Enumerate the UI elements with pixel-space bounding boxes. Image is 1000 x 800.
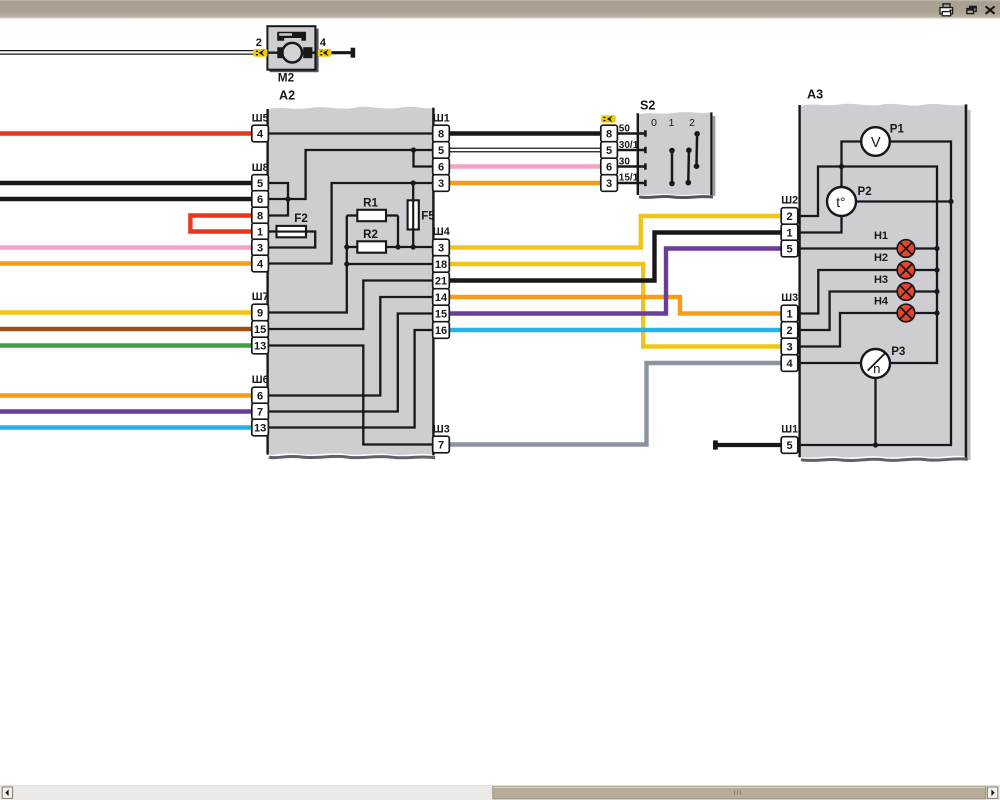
svg-text:A3: A3 — [807, 87, 823, 101]
node lamp H1 common — [934, 246, 939, 251]
svg-text:Ш2: Ш2 — [781, 195, 798, 207]
tachometer P3 — [861, 349, 890, 378]
wire Sh7.13 to Sh3.7 — [268, 346, 434, 445]
svg-text:R2: R2 — [363, 228, 378, 241]
svg-text:Ш4: Ш4 — [433, 226, 450, 238]
wire red loop Sh8.8 to Sh8.1 — [190, 216, 251, 232]
resistor R1 — [347, 214, 358, 216]
wire yellow Sh4.3 to A3 Sh2.2 — [449, 216, 781, 248]
wire Sh2.2 common net to lamps — [800, 167, 937, 364]
title bar — [0, 0, 1000, 18]
wire black Sh1.8 to S2.8 — [449, 131, 601, 135]
svg-text:5: 5 — [257, 178, 263, 190]
svg-text:2: 2 — [786, 325, 792, 337]
S2 contact line — [617, 165, 645, 167]
wire Sh1.3 to Sh8.4 — [268, 183, 434, 264]
svg-text:9: 9 — [257, 308, 263, 320]
wire Sh4.14 to Sh6.6 — [268, 297, 434, 396]
S2 contact line — [617, 132, 645, 134]
node R2 left — [344, 244, 349, 249]
svg-text:Ш1: Ш1 — [781, 424, 798, 436]
svg-text:4: 4 — [786, 358, 793, 370]
connector at M2 pin 4 — [318, 49, 332, 57]
svg-text:R1: R1 — [363, 197, 378, 210]
svg-text:6: 6 — [606, 162, 612, 174]
svg-text:Ш5: Ш5 — [252, 113, 269, 125]
svg-text:H2: H2 — [874, 252, 888, 264]
S2 contact bridge pos1 — [671, 151, 674, 184]
svg-text:14: 14 — [435, 292, 448, 304]
wire M2 pin4 to body terminal — [332, 51, 352, 54]
wire black to Sh8.6 — [0, 197, 252, 201]
voltmeter P1 — [861, 127, 890, 156]
resistor R2 — [347, 246, 358, 248]
node lamp H4 common — [934, 310, 939, 315]
svg-text:Ш6: Ш6 — [252, 374, 269, 386]
svg-text:Ш7: Ш7 — [252, 291, 269, 303]
wire orange to Sh8.4 — [0, 261, 252, 265]
wire Sh4.15 to Sh6.7 — [268, 314, 434, 412]
lamp H4 — [897, 304, 915, 322]
svg-text:t°: t° — [836, 195, 845, 210]
instrument cluster A3 block — [968, 110, 971, 460]
wire orange to Sh6.6 — [0, 393, 252, 397]
svg-text:A2: A2 — [279, 88, 295, 102]
svg-text:M2: M2 — [278, 70, 295, 84]
svg-text:1: 1 — [786, 309, 792, 321]
node R1 right — [395, 244, 400, 249]
wire red to Sh5.4 — [0, 131, 252, 135]
S2 contact bridge pos2 low — [687, 150, 690, 182]
svg-text:6: 6 — [438, 162, 444, 174]
wire orange Sh1.3 to S2.3 — [449, 181, 601, 185]
svg-text:7: 7 — [257, 407, 263, 419]
wire yellow Sh4.18 to A3 Sh3.3 — [449, 264, 781, 347]
svg-text:H4: H4 — [874, 296, 889, 308]
wire Sh4.16 to Sh6.13 — [268, 330, 434, 428]
svg-text:8: 8 — [257, 211, 263, 223]
svg-text:3: 3 — [786, 342, 792, 354]
wire Sh5.4 to Sh1.8 — [268, 132, 434, 134]
scrollbar thumb — [493, 787, 986, 799]
wire P3 bottom — [874, 378, 876, 445]
wire black Sh4.21 to A3 Sh2.1 — [449, 233, 781, 281]
node P3 bottom — [873, 442, 878, 447]
wire P1 right lead down to Sh1.5 — [800, 142, 951, 446]
svg-text:13: 13 — [254, 341, 266, 353]
wire black A3 Sh1.5 to body — [718, 443, 782, 447]
wire pink to Sh8.3 — [0, 245, 252, 249]
restore window icon — [967, 6, 976, 13]
svg-text:4: 4 — [257, 259, 264, 271]
node Sh1.5/6 junction — [411, 147, 416, 152]
svg-text:n: n — [873, 361, 880, 376]
svg-text:V: V — [871, 135, 881, 151]
svg-text:3: 3 — [438, 243, 444, 255]
connector above S2 pin 8 — [601, 115, 616, 122]
wire to lamp H4 — [800, 313, 898, 347]
wire pink Sh1.6 to S2.6 — [449, 164, 601, 168]
node lamp H2 common — [934, 267, 939, 272]
wire brown to Sh7.15 — [0, 327, 252, 331]
wire to lamp H1 — [800, 247, 898, 249]
wire purple Sh4.15 to A3 Sh2.5 — [449, 249, 781, 314]
wire R1/R2 left vertical to Sh7.9 — [268, 216, 347, 313]
node common/P1 — [839, 164, 844, 169]
svg-text:30/1: 30/1 — [619, 140, 639, 151]
svg-text:2: 2 — [689, 118, 695, 129]
svg-text:7: 7 — [438, 440, 444, 452]
wire to lamp H3 — [800, 292, 898, 331]
svg-text:15: 15 — [435, 309, 447, 321]
svg-text:1: 1 — [786, 228, 792, 240]
svg-text:5: 5 — [438, 145, 444, 157]
svg-text:Ш3: Ш3 — [433, 423, 450, 435]
wire P1 left lead — [842, 142, 862, 188]
wire cyan Sh4.16 to A3 Sh3.2 — [449, 328, 781, 332]
wire orange Sh4.14 to A3 Sh3.1 — [449, 297, 781, 314]
S2 contact line — [617, 182, 645, 184]
horizontal scrollbar track — [0, 786, 1000, 800]
scrollbar right arrow button — [987, 787, 997, 798]
node F5 bottom — [411, 244, 416, 249]
wire double-line Sh1.5 to S2.5 — [449, 148, 601, 153]
svg-text:5: 5 — [786, 440, 792, 452]
body terminal bar at A3 — [713, 440, 718, 449]
printer icon — [940, 4, 953, 16]
wire to lamp H2 — [800, 270, 898, 314]
svg-text:3: 3 — [606, 178, 612, 190]
svg-text:S2: S2 — [640, 98, 655, 112]
connector at M2 pin 2 — [253, 49, 267, 57]
node lamp H3 common — [934, 289, 939, 294]
node F5 top — [411, 180, 416, 185]
wire double-line to M2 pin 2 — [0, 50, 254, 55]
S2 contact line — [617, 149, 645, 151]
svg-text:18: 18 — [435, 259, 447, 271]
close icon — [986, 6, 995, 13]
svg-text:Ш3: Ш3 — [781, 292, 798, 304]
svg-text:2: 2 — [786, 211, 792, 223]
svg-text:F2: F2 — [294, 212, 308, 225]
wire yellow to Sh7.9 — [0, 310, 252, 314]
svg-text:P3: P3 — [891, 345, 906, 358]
svg-text:50: 50 — [619, 123, 631, 134]
wire purple to Sh6.7 — [0, 409, 252, 413]
svg-text:30: 30 — [619, 156, 631, 167]
temperature gauge P2 — [827, 187, 856, 216]
svg-text:21: 21 — [435, 276, 447, 288]
svg-text:4: 4 — [257, 129, 264, 141]
svg-text:6: 6 — [257, 391, 263, 403]
svg-text:3: 3 — [257, 243, 263, 255]
svg-text:1: 1 — [257, 227, 263, 239]
body terminal bar — [351, 48, 356, 58]
svg-text:8: 8 — [438, 129, 444, 141]
lamp H1 — [897, 240, 915, 258]
lamp H2 — [897, 261, 915, 279]
wire Sh4.21 to Sh7.15 — [268, 281, 434, 330]
svg-text:6: 6 — [257, 194, 263, 206]
svg-text:2: 2 — [256, 37, 262, 49]
motor M2 — [267, 26, 318, 72]
wire net Sh1.5/Sh1.6/Sh8 5-6-8 — [268, 150, 434, 199]
svg-text:Ш1: Ш1 — [433, 113, 450, 125]
wire Sh3.4 to P3 — [800, 362, 861, 364]
svg-text:1: 1 — [669, 118, 675, 129]
electronic unit A2 block — [267, 107, 433, 455]
wire P2 right lead — [856, 200, 951, 202]
wire grey Sh3.7 to A3 Sh3.4 — [449, 363, 781, 445]
lamp H3 — [897, 283, 915, 301]
wire P2 bottom to Sh2.1 — [800, 216, 842, 233]
S2 contact bridge pos2 high — [695, 134, 698, 166]
svg-text:15: 15 — [254, 324, 266, 336]
svg-text:Ш8: Ш8 — [252, 162, 269, 174]
fuse F5 — [412, 183, 414, 200]
wire black to Sh8.5 — [0, 181, 252, 185]
svg-text:H1: H1 — [874, 230, 888, 242]
svg-text:13: 13 — [254, 423, 266, 435]
node P2/P1 vertical — [948, 199, 953, 204]
svg-text:8: 8 — [606, 129, 612, 141]
svg-text:5: 5 — [606, 145, 612, 157]
wire F2 to Sh8.3 — [268, 232, 316, 248]
svg-text:5: 5 — [786, 244, 792, 256]
wire branch to Sh4.18 — [347, 263, 434, 265]
svg-text:4: 4 — [320, 37, 327, 49]
node Sh4.18 branch — [344, 261, 349, 266]
node Sh8 junction — [285, 196, 290, 201]
svg-text:15/1: 15/1 — [619, 172, 639, 183]
wire green to Sh7.13 — [0, 343, 252, 347]
svg-text:P1: P1 — [890, 123, 905, 136]
fuse F2 — [277, 226, 307, 237]
scrollbar left arrow button — [2, 787, 12, 798]
svg-text:H3: H3 — [874, 274, 888, 286]
svg-text:F5: F5 — [421, 210, 435, 223]
wire R1 right vertical — [397, 216, 399, 248]
svg-text:16: 16 — [435, 325, 447, 337]
ignition switch S2 block — [713, 116, 716, 196]
wire Sh8.1 to F2 — [268, 230, 277, 232]
svg-text:3: 3 — [438, 178, 444, 190]
wire cyan to Sh6.13 — [0, 425, 252, 429]
svg-text:0: 0 — [651, 118, 657, 129]
svg-text:P2: P2 — [858, 185, 872, 198]
